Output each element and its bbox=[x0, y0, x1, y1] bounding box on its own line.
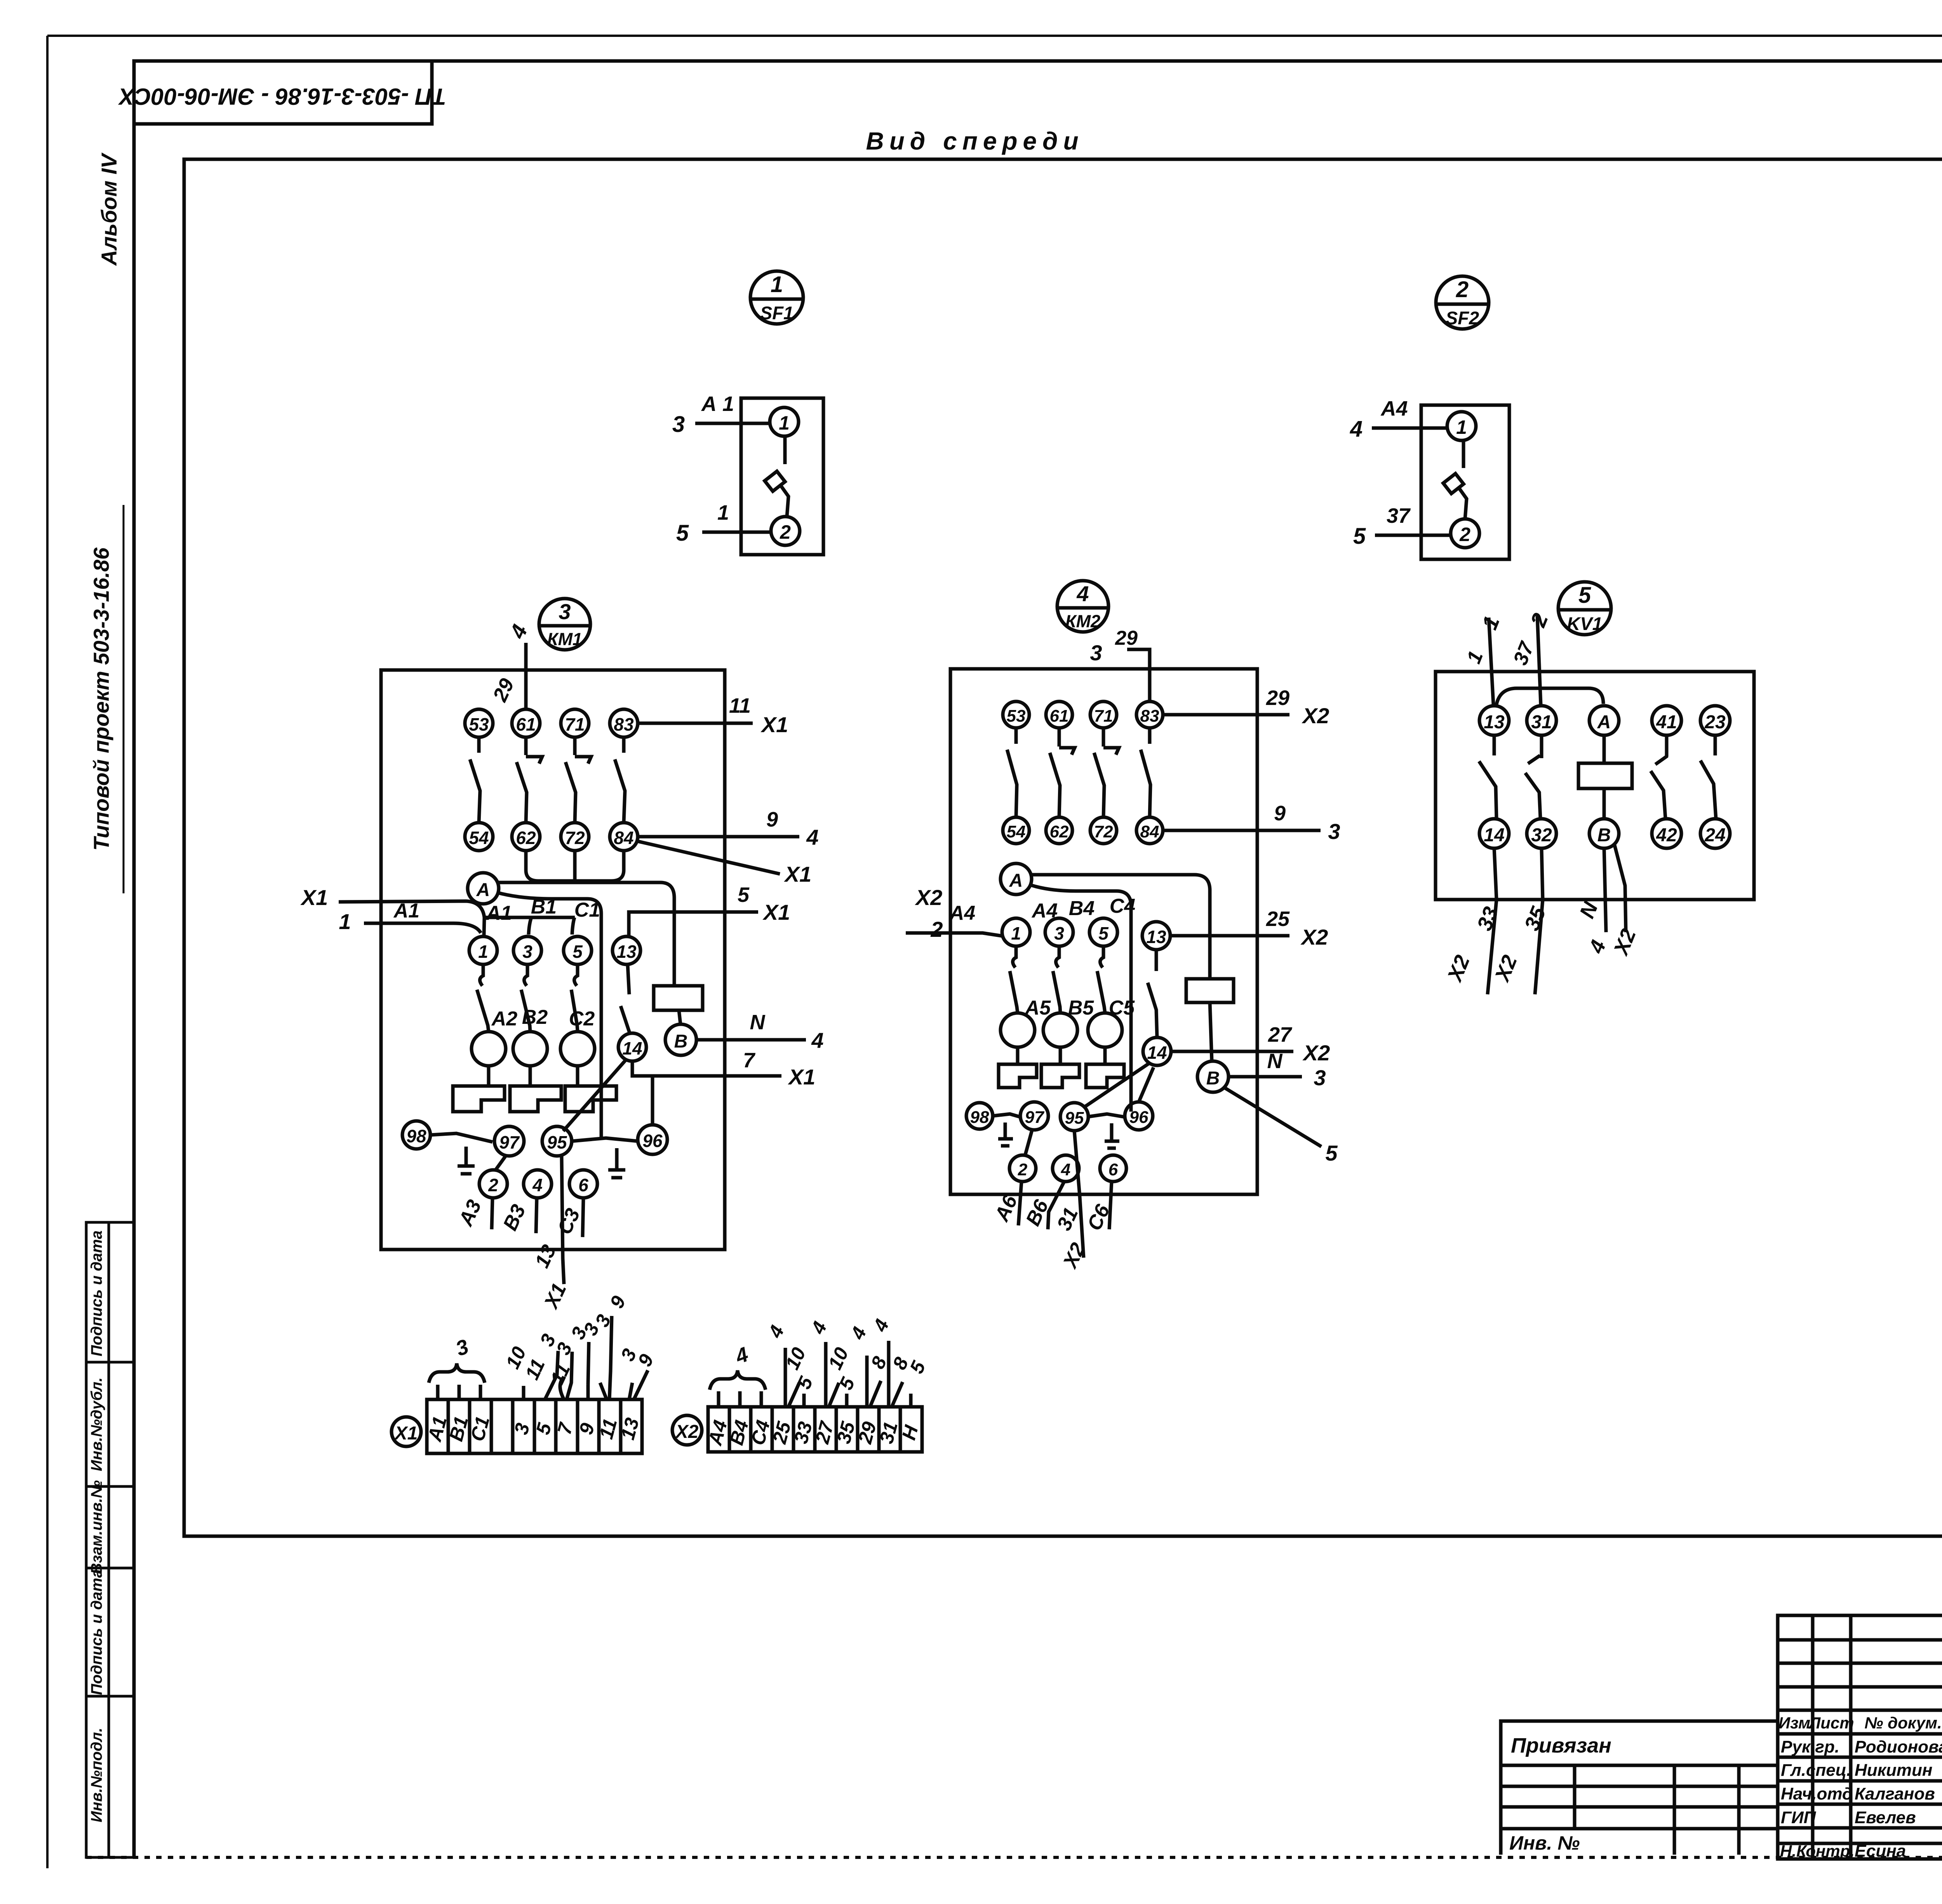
wire C6 from 6 bbox=[1109, 1182, 1112, 1229]
svg-text:КМ2: КМ2 bbox=[1065, 611, 1100, 631]
KM2 contact 83 bbox=[1136, 701, 1163, 728]
wire X1 into KM1:1 (upper) bbox=[339, 901, 484, 917]
KM1 terminal 2 bbox=[479, 1170, 507, 1198]
blade 61-62 (NC) bbox=[1058, 728, 1061, 747]
X1 wires over cell 5 bbox=[545, 1351, 558, 1399]
svg-text:Нач.отд: Нач.отд bbox=[1781, 1784, 1853, 1803]
KM1 contact 61 bbox=[512, 709, 540, 737]
svg-text:95: 95 bbox=[547, 1132, 567, 1152]
svg-text:83: 83 bbox=[614, 714, 634, 734]
wire X2 35 from KV1:32 bbox=[1535, 848, 1543, 994]
KM2 heater C bbox=[1103, 1047, 1107, 1064]
KV1 terminal B bbox=[1589, 819, 1619, 848]
KM2 thermal element B5 bbox=[1043, 1013, 1077, 1047]
svg-text:53: 53 bbox=[469, 714, 489, 734]
X2 brace bbox=[710, 1370, 766, 1390]
blade 53-54 bbox=[1015, 728, 1018, 744]
KV1 coil bbox=[1578, 763, 1632, 788]
KV1 contact 23-24 bbox=[1714, 735, 1717, 755]
KM2 coil terminal 1 bbox=[1002, 918, 1030, 946]
svg-text:Лист: Лист bbox=[1808, 1714, 1854, 1732]
svg-text:95: 95 bbox=[1065, 1109, 1084, 1128]
wire 97 down to 2 bbox=[496, 1156, 506, 1170]
KM2 aux contact 97 bbox=[1020, 1102, 1048, 1130]
svg-text:3: 3 bbox=[1090, 640, 1102, 665]
KV1 terminal 32 bbox=[1527, 819, 1556, 848]
svg-text:В5: В5 bbox=[1068, 997, 1095, 1019]
relay KV1 bbox=[1436, 582, 1754, 994]
SF1 switch blade bbox=[783, 436, 787, 464]
KM2 terminal 14 bbox=[1143, 1037, 1171, 1065]
wire 31/X2 from 95 bbox=[1074, 1131, 1084, 1258]
X1 wires over cell 7 bbox=[567, 1352, 572, 1399]
wire A6 from 2 bbox=[1018, 1182, 1021, 1225]
svg-text:X1: X1 bbox=[300, 885, 328, 910]
KM2 contact 61 bbox=[1046, 701, 1072, 728]
wire A to coil bbox=[1031, 875, 1210, 979]
svg-text:1: 1 bbox=[771, 272, 783, 297]
blade under 3 bbox=[1056, 946, 1059, 968]
svg-text:24: 24 bbox=[1704, 825, 1725, 846]
svg-text:71: 71 bbox=[1094, 707, 1113, 726]
X2 wires over cell 25 bbox=[784, 1348, 787, 1407]
X1 wires over cell 11 bbox=[609, 1316, 612, 1399]
KM1 body bbox=[381, 670, 725, 1250]
svg-text:1: 1 bbox=[1456, 416, 1467, 438]
svg-text:SF1: SF1 bbox=[760, 303, 794, 323]
SF1 terminal 2 bbox=[771, 517, 800, 545]
svg-text:А1: А1 bbox=[486, 902, 512, 924]
svg-text:5: 5 bbox=[676, 520, 689, 546]
svg-text:1: 1 bbox=[779, 412, 790, 434]
svg-text:62: 62 bbox=[516, 828, 536, 848]
svg-text:А4: А4 bbox=[1380, 397, 1408, 420]
svg-text:Изм: Изм bbox=[1778, 1714, 1810, 1732]
svg-text:А: А bbox=[1597, 712, 1611, 733]
X1 stubs bbox=[438, 1385, 588, 1399]
KM2 contact 72 bbox=[1090, 817, 1117, 844]
X1 brace bbox=[429, 1363, 485, 1383]
wire N/3 from KM2:B bbox=[1229, 1075, 1302, 1079]
left margin text: Типовой проект 503-3-16.86 bbox=[89, 547, 113, 851]
KM2 coil terminal 5 bbox=[1089, 918, 1117, 946]
svg-text:29: 29 bbox=[1266, 686, 1289, 710]
svg-text:В2: В2 bbox=[522, 1006, 548, 1029]
svg-text:84: 84 bbox=[614, 828, 633, 848]
main drawing box bbox=[184, 159, 1942, 1536]
blade 71-72 (NC) bbox=[1102, 728, 1105, 747]
KM2 thermal element A5 bbox=[1001, 1013, 1035, 1047]
KM1 coil terminal 5 bbox=[564, 936, 592, 964]
KV1 terminal 23 bbox=[1700, 706, 1730, 735]
wire 4/29 into KM1:61 bbox=[524, 643, 528, 709]
svg-text:4: 4 bbox=[1350, 416, 1363, 442]
svg-text:4: 4 bbox=[1076, 581, 1089, 606]
KM2 aux contact 95 bbox=[1060, 1103, 1088, 1131]
svg-text:Вид спереди: Вид спереди bbox=[866, 127, 1084, 155]
svg-text:62: 62 bbox=[1050, 822, 1069, 841]
KV1 terminal 13 bbox=[1479, 706, 1509, 735]
svg-text:Никитин: Никитин bbox=[1855, 1761, 1932, 1780]
svg-text:2: 2 bbox=[1456, 277, 1469, 302]
KM1 contact 53 bbox=[465, 709, 493, 737]
KM1 thermal element A bbox=[472, 1032, 506, 1066]
KM1 contact 83 bbox=[610, 709, 638, 737]
wire 5/1 to SF1:2 bbox=[702, 531, 771, 534]
wire 96 up bbox=[651, 1076, 654, 1125]
svg-text:KV1: KV1 bbox=[1567, 613, 1602, 634]
svg-text:В1: В1 bbox=[531, 896, 557, 918]
svg-text:А 1: А 1 bbox=[701, 392, 734, 416]
svg-text:13: 13 bbox=[1146, 927, 1166, 947]
svg-text:X1: X1 bbox=[760, 712, 788, 737]
wire B6 from 4 bbox=[1048, 1182, 1064, 1229]
svg-text:КМ1: КМ1 bbox=[547, 629, 582, 649]
aux blade 95-96 bbox=[1088, 1114, 1125, 1117]
aux blade 98-97 bbox=[993, 1114, 1021, 1117]
svg-text:72: 72 bbox=[1094, 822, 1113, 841]
svg-text:14: 14 bbox=[1147, 1043, 1167, 1063]
KM1 coil terminal 1 bbox=[469, 936, 497, 964]
KM1 aux contact 98 bbox=[402, 1121, 430, 1149]
svg-text:3: 3 bbox=[1054, 923, 1064, 943]
wire X2 from KV1:B bbox=[1614, 844, 1626, 932]
svg-text:А2: А2 bbox=[491, 1008, 518, 1030]
KM2 thermal element C5 bbox=[1088, 1013, 1122, 1047]
svg-text:В: В bbox=[1206, 1068, 1220, 1089]
svg-text:Подпись и дата: Подпись и дата bbox=[88, 1569, 105, 1695]
KM1 contact 54 bbox=[465, 823, 493, 851]
svg-text:С1: С1 bbox=[574, 899, 600, 921]
svg-text:X2: X2 bbox=[1302, 1041, 1330, 1065]
svg-text:11: 11 bbox=[729, 694, 751, 717]
svg-text:А4: А4 bbox=[949, 902, 976, 924]
wire A down to aux contacts bbox=[1030, 885, 1131, 1112]
KM2 terminal 2 bbox=[1009, 1155, 1036, 1182]
KM2 designation circle bbox=[1057, 581, 1108, 632]
KV1 contact 13-14 bbox=[1493, 735, 1496, 755]
svg-text:Н.Контр.: Н.Контр. bbox=[1780, 1842, 1855, 1860]
svg-text:98: 98 bbox=[970, 1108, 989, 1127]
svg-text:84: 84 bbox=[1140, 822, 1159, 841]
wire A3 from 2 bbox=[492, 1198, 492, 1229]
X1 wires over cell 9 bbox=[588, 1342, 589, 1385]
svg-text:3: 3 bbox=[559, 599, 571, 624]
X2 stubs bbox=[719, 1391, 911, 1407]
KM2 terminal B bbox=[1197, 1061, 1229, 1092]
X2 wires over cell 31 bbox=[887, 1341, 891, 1407]
KM2 terminal 6 bbox=[1100, 1155, 1126, 1182]
blade 71-72 (NC) bbox=[573, 737, 577, 755]
KM1 designation circle bbox=[539, 599, 590, 650]
svg-text:Типовой проект 503-3-16.86: Типовой проект 503-3-16.86 bbox=[89, 547, 113, 851]
svg-text:31: 31 bbox=[1531, 712, 1552, 733]
svg-text:ТП -503-3-16.86 - ЭМ-06-00СХ: ТП -503-3-16.86 - ЭМ-06-00СХ bbox=[118, 84, 446, 110]
svg-text:В: В bbox=[674, 1031, 688, 1052]
svg-text:2: 2 bbox=[780, 521, 791, 543]
svg-text:2: 2 bbox=[930, 917, 943, 942]
svg-text:Инв.№подл.: Инв.№подл. bbox=[88, 1728, 105, 1822]
KM1 contact 72 bbox=[561, 823, 589, 851]
aux blade 98-97 bbox=[430, 1133, 492, 1142]
title block stamp bbox=[1778, 1615, 1942, 1860]
frame bottom perforation line bbox=[86, 1856, 1942, 1859]
KM2 contact 62 bbox=[1046, 817, 1072, 844]
blade under 5 bbox=[1100, 946, 1103, 968]
svg-text:Евелев: Евелев bbox=[1855, 1808, 1916, 1827]
svg-text:4: 4 bbox=[806, 825, 818, 849]
SF1 designation circle bbox=[750, 271, 803, 324]
wire 3/A1 to SF1:1 bbox=[695, 422, 770, 425]
circuit breaker SF1 bbox=[672, 271, 823, 555]
svg-text:29: 29 bbox=[1115, 627, 1138, 649]
KM1 terminal 6 bbox=[569, 1170, 597, 1198]
aux blade 95-96 bbox=[572, 1138, 638, 1141]
KM1 coil bbox=[654, 986, 703, 1010]
svg-text:X2: X2 bbox=[675, 1422, 699, 1442]
wire 25/X2 from KM2:13 bbox=[1170, 934, 1289, 938]
revision table verticals bbox=[1811, 1615, 1815, 1859]
KV1 terminal 41 bbox=[1652, 706, 1681, 735]
wire 95 long down to X1 13 bbox=[562, 1156, 564, 1284]
wire 2/37 into KV1:31 bbox=[1537, 616, 1541, 705]
X1 wires over cell 13 bbox=[629, 1370, 648, 1399]
svg-text:3: 3 bbox=[1314, 1065, 1326, 1090]
svg-text:Взам.инв.№: Взам.инв.№ bbox=[88, 1480, 105, 1574]
SF2 designation circle bbox=[1436, 276, 1489, 329]
svg-text:Х2: Х2 bbox=[915, 885, 943, 910]
KM2 coil terminal 3 bbox=[1045, 918, 1073, 946]
KV1 terminal 31 bbox=[1527, 706, 1556, 735]
KM1 heater A bbox=[487, 1066, 491, 1086]
wire X2 33 from KV1:14 bbox=[1488, 848, 1497, 994]
circuit breaker SF2 bbox=[1350, 276, 1509, 559]
stamp header texts bbox=[1778, 1714, 1942, 1732]
svg-text:X1: X1 bbox=[762, 900, 790, 924]
svg-text:96: 96 bbox=[1129, 1108, 1148, 1127]
svg-text:X2: X2 bbox=[1300, 925, 1328, 949]
svg-text:1: 1 bbox=[1011, 923, 1021, 943]
svg-text:13: 13 bbox=[616, 942, 637, 962]
wire 11/X1 from KM1:83 bbox=[638, 722, 753, 725]
wire 97 down bbox=[1025, 1130, 1032, 1154]
KM1 contact 71 bbox=[561, 709, 589, 737]
SF2 terminal 2 bbox=[1451, 519, 1479, 548]
svg-text:1: 1 bbox=[478, 942, 488, 962]
svg-text:2: 2 bbox=[488, 1175, 498, 1195]
KM2 aux contact 98 bbox=[966, 1103, 993, 1129]
SF2 switch blade bbox=[1462, 440, 1465, 468]
blade 53-54 bbox=[477, 737, 481, 753]
svg-text:С2: С2 bbox=[569, 1008, 595, 1030]
wire 96 up bbox=[1139, 1067, 1154, 1102]
KM1 terminal 13 bbox=[613, 936, 640, 964]
KM2 contact 53 bbox=[1003, 701, 1029, 728]
attachment table bbox=[1499, 1765, 1503, 1855]
wire 13 down bbox=[628, 964, 629, 994]
bus 62-72-84 bbox=[526, 851, 624, 881]
svg-text:96: 96 bbox=[642, 1131, 663, 1151]
blade under 1 bbox=[480, 964, 483, 986]
privyazan block bbox=[1501, 1721, 1778, 1855]
wire 14 to 95 bbox=[1084, 1063, 1149, 1107]
blade 83-84 bbox=[622, 737, 626, 753]
KM2 contact 54 bbox=[1003, 817, 1029, 844]
KV1 terminal 14 bbox=[1479, 819, 1509, 848]
KV1 designation circle bbox=[1558, 582, 1611, 635]
svg-text:Инв.№дубл.: Инв.№дубл. bbox=[88, 1377, 105, 1471]
svg-text:3: 3 bbox=[672, 412, 685, 437]
wire 5 from KM2:B bbox=[1224, 1088, 1321, 1147]
svg-text:5: 5 bbox=[1098, 923, 1109, 943]
wire 3/29 into KM2:83 bbox=[1127, 649, 1150, 701]
signers bbox=[1780, 1737, 1942, 1860]
KM2 contact 84 bbox=[1136, 817, 1163, 844]
svg-text:X1: X1 bbox=[784, 862, 812, 886]
svg-text:9: 9 bbox=[766, 808, 778, 831]
svg-text:Подпись и дата: Подпись и дата bbox=[88, 1230, 105, 1356]
svg-text:4: 4 bbox=[811, 1028, 823, 1053]
KM2 heater B bbox=[1059, 1047, 1062, 1064]
SF2 terminal 1 bbox=[1447, 412, 1476, 440]
SF1 terminal 1 bbox=[770, 407, 799, 436]
svg-text:Альбом IV: Альбом IV bbox=[97, 152, 121, 266]
svg-text:Гл.спец.: Гл.спец. bbox=[1781, 1761, 1851, 1780]
svg-text:ГИП: ГИП bbox=[1781, 1808, 1817, 1827]
KM1 contact 62 bbox=[512, 823, 540, 851]
wire B3 from 4 bbox=[536, 1198, 537, 1233]
KM1 heater C bbox=[576, 1066, 579, 1086]
KM2 body bbox=[950, 669, 1257, 1194]
KV1 terminal 24 bbox=[1700, 819, 1730, 848]
svg-text:97: 97 bbox=[1025, 1108, 1045, 1127]
svg-text:№ докум.: № докум. bbox=[1864, 1714, 1942, 1732]
svg-text:27: 27 bbox=[1268, 1023, 1293, 1046]
KM1 aux contact 96 bbox=[638, 1125, 667, 1154]
KM2 heater A bbox=[1016, 1047, 1020, 1064]
KM2 coil bbox=[1186, 979, 1234, 1002]
svg-text:N: N bbox=[750, 1011, 766, 1034]
svg-text:23: 23 bbox=[1704, 712, 1726, 733]
svg-text:97: 97 bbox=[499, 1132, 520, 1152]
svg-text:71: 71 bbox=[565, 714, 585, 734]
svg-text:25: 25 bbox=[1266, 907, 1290, 931]
svg-text:4: 4 bbox=[1061, 1160, 1070, 1179]
svg-text:А: А bbox=[476, 880, 490, 900]
blade 13-14 bbox=[1155, 950, 1158, 971]
wire 27/X2 from KM2:14 bbox=[1171, 1050, 1293, 1053]
svg-text:А1: А1 bbox=[393, 900, 419, 922]
KM2 terminal 13 bbox=[1142, 922, 1170, 950]
phase bus over coil terminals bbox=[484, 916, 575, 919]
KM1 thermal element C bbox=[560, 1032, 595, 1066]
svg-text:X2: X2 bbox=[1302, 703, 1329, 728]
svg-text:Родионова: Родионова bbox=[1855, 1737, 1942, 1756]
wire 7/X1 from KM1:14 bbox=[632, 1061, 781, 1076]
KM2 terminal 4 bbox=[1053, 1155, 1079, 1182]
svg-text:5: 5 bbox=[738, 883, 750, 907]
svg-text:9: 9 bbox=[1274, 802, 1286, 825]
blade under 5 bbox=[574, 964, 578, 986]
svg-text:Инв. №: Инв. № bbox=[1509, 1832, 1580, 1854]
svg-text:X1: X1 bbox=[394, 1423, 418, 1444]
svg-text:14: 14 bbox=[622, 1038, 642, 1058]
svg-text:Калганов: Калганов bbox=[1855, 1784, 1935, 1803]
KV1 contact 41-42 bbox=[1665, 735, 1669, 757]
wire 2/A4 into KM2:1 bbox=[906, 933, 1003, 936]
svg-text:В4: В4 bbox=[1069, 897, 1095, 920]
blade under 1 bbox=[1013, 946, 1016, 968]
terminal strip X1 bbox=[392, 1293, 658, 1453]
wire A down to aux contacts bbox=[497, 893, 601, 1137]
heading: Вид спереди bbox=[866, 127, 1084, 155]
KV1 body bbox=[1436, 672, 1754, 900]
KM1 contact 84 bbox=[610, 823, 638, 851]
svg-text:5: 5 bbox=[1353, 524, 1366, 549]
wire 4/A4 to SF2:1 bbox=[1372, 426, 1447, 430]
contactor KM2 bbox=[906, 581, 1340, 1272]
svg-text:61: 61 bbox=[516, 714, 536, 734]
revision rows bbox=[1778, 1638, 1942, 1642]
left margin text: Альбом IV bbox=[97, 151, 125, 266]
svg-text:7: 7 bbox=[743, 1049, 756, 1072]
svg-text:Есина: Есина bbox=[1855, 1841, 1906, 1860]
wire A to coil bbox=[498, 882, 674, 986]
svg-text:6: 6 bbox=[578, 1175, 588, 1195]
svg-text:98: 98 bbox=[406, 1126, 426, 1146]
wire 1 into KV1:13 bbox=[1489, 618, 1493, 705]
KM1 thermal element B bbox=[513, 1032, 547, 1066]
svg-text:С5: С5 bbox=[1109, 997, 1135, 1019]
KM1 heater B bbox=[529, 1066, 532, 1086]
svg-text:А5: А5 bbox=[1024, 997, 1051, 1019]
blade 13-14 bbox=[621, 1006, 630, 1034]
wire 9/3 from KM2:84 bbox=[1163, 829, 1321, 832]
wire 29/X2 from KM2:83 bbox=[1163, 713, 1289, 717]
KM2 terminal A bbox=[1001, 863, 1032, 895]
KM2 aux contact 96 bbox=[1125, 1102, 1153, 1130]
svg-text:32: 32 bbox=[1531, 825, 1552, 846]
svg-text:41: 41 bbox=[1656, 712, 1677, 733]
svg-text:Привязан: Привязан bbox=[1511, 1734, 1611, 1757]
KM1 terminal A bbox=[468, 873, 499, 904]
svg-text:14: 14 bbox=[1484, 825, 1504, 846]
blade 61-62 (NC) bbox=[524, 737, 528, 755]
svg-text:37: 37 bbox=[1387, 504, 1411, 527]
KV1 terminal A bbox=[1589, 706, 1619, 735]
KM1 aux contact 97 bbox=[494, 1126, 524, 1156]
KM2 contact 71 bbox=[1090, 701, 1117, 728]
wire 4/N from KV1:B bbox=[1604, 848, 1606, 932]
KM1 terminal 4 bbox=[524, 1170, 552, 1198]
svg-text:3: 3 bbox=[522, 942, 532, 962]
svg-text:1: 1 bbox=[717, 501, 729, 524]
wire 5/37 to SF2:2 bbox=[1375, 534, 1451, 537]
X2 wires over cell 27 bbox=[824, 1342, 828, 1407]
svg-text:А: А bbox=[1009, 870, 1023, 891]
KM1 terminal B bbox=[665, 1024, 696, 1055]
X1 strip body bbox=[427, 1399, 642, 1453]
svg-text:2: 2 bbox=[1018, 1160, 1028, 1179]
svg-text:4: 4 bbox=[532, 1175, 543, 1195]
svg-text:В: В bbox=[1597, 825, 1611, 846]
wire 5/X1 from KM1:13 bbox=[629, 912, 758, 936]
svg-text:54: 54 bbox=[1007, 822, 1026, 841]
contactor KM1 bbox=[300, 599, 824, 1313]
X2 strip body bbox=[708, 1407, 922, 1452]
terminal strip X2 bbox=[672, 1316, 930, 1452]
KM1 terminal 14 bbox=[618, 1033, 646, 1061]
